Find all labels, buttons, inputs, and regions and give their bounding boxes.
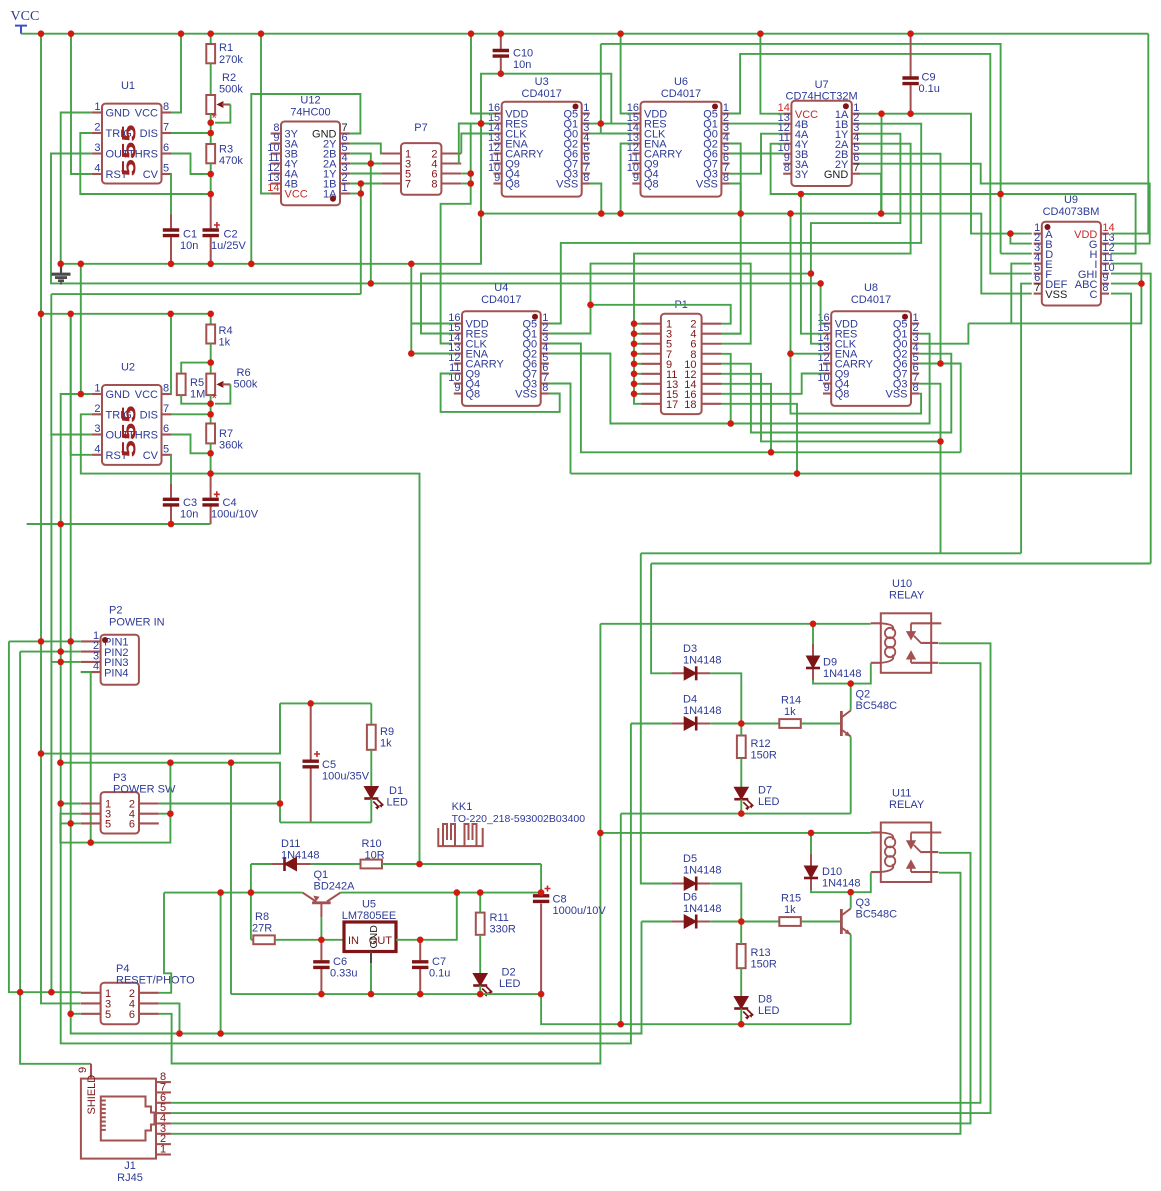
U11 NC contact stub (922, 851, 939, 853)
U9 pin 1 stub (1034, 233, 1042, 235)
junction VCC rail x261 (258, 30, 265, 37)
svg-text:8: 8 (784, 162, 790, 174)
svg-text:27R: 27R (252, 923, 272, 935)
junction row762 x231 (228, 759, 235, 766)
junction row762 x170.4 (167, 759, 174, 766)
junction P7.8 (467, 180, 474, 187)
U6 pin 8 stub (721, 182, 729, 184)
junction P1.14 row452 (768, 449, 775, 456)
wire U1.VCC to rail (172, 34, 181, 113)
wire R13 to D8 (740, 968, 742, 996)
svg-text:R10: R10 (362, 838, 382, 850)
U1 pin 4 stub (92, 173, 102, 175)
U7 pin 14 stub (783, 113, 791, 115)
junction Q1/RES (598, 120, 605, 127)
U4 pin 8 stub (541, 392, 549, 394)
U2 pin 6 stub (162, 433, 172, 435)
svg-text:1N4148: 1N4148 (822, 878, 861, 890)
wire D11 to R10 (311, 863, 361, 865)
junction rail2 x41 (38, 311, 45, 318)
resistor R15 (779, 917, 801, 926)
U1 pin 1 stub (92, 111, 102, 113)
P7 pin stub (441, 162, 461, 164)
wire U1.RST to VCC rail (71, 34, 92, 174)
wire P2.1 col to P4.1 (9, 641, 81, 992)
svg-text:PIN4: PIN4 (104, 667, 128, 679)
wire U2.RST up to rail2 (71, 314, 92, 455)
wire Q3 collector up (850, 892, 852, 908)
wire VCC rail (21, 33, 1148, 35)
junction gnd row994 x371 (368, 991, 375, 998)
svg-text:10n: 10n (180, 509, 198, 521)
ground symbol (52, 264, 71, 284)
wire relay supply row U10 (600, 623, 870, 625)
wire U10 coil- down (851, 663, 871, 683)
P7 pin stub (381, 182, 401, 184)
wire row753 riser (279, 703, 281, 752)
wire U1.DIS to R3 top (172, 132, 211, 134)
wire R3 col (210, 133, 212, 144)
junction P1 bus 11 (631, 371, 638, 378)
wire D2 bottom (479, 986, 481, 995)
junction P3.4 (167, 810, 174, 817)
wire P1.14 riser (721, 384, 771, 453)
wire P1 pin 7 to bus (634, 353, 641, 355)
transistor Q1 (303, 893, 341, 917)
junction gnd bus x60.7 (57, 261, 64, 268)
svg-text:8: 8 (163, 383, 169, 395)
U3 pin 14 stub (494, 132, 502, 134)
svg-text:C7: C7 (432, 956, 446, 968)
resistor R8 (253, 935, 274, 944)
U3 pin 2 stub (582, 122, 590, 124)
wire P3.5 row (60, 822, 80, 824)
svg-text:LED: LED (499, 978, 520, 990)
wire R11 to D2 (479, 935, 481, 974)
wire R11 top (479, 893, 481, 913)
wire D5 input riser (641, 553, 671, 883)
svg-text:5: 5 (163, 443, 169, 455)
resistor R5 (177, 374, 186, 396)
svg-text:CD4073BM: CD4073BM (1043, 206, 1100, 218)
svg-text:7: 7 (853, 162, 859, 174)
J1 pin 4 stub (156, 1122, 171, 1124)
IC P3 body (101, 792, 139, 833)
U7 pin 1 stub (852, 113, 860, 115)
U6 pin 13 stub (632, 142, 640, 144)
P1 pin stub (641, 383, 661, 385)
capacitor C8 (533, 886, 551, 995)
svg-text:4: 4 (93, 661, 99, 673)
svg-text:R7: R7 (219, 428, 233, 440)
junction gnd row x171 (168, 521, 175, 528)
svg-text:D10: D10 (822, 866, 842, 878)
svg-text:1N4148: 1N4148 (281, 850, 320, 862)
U8 pin 10 stub (823, 382, 831, 384)
svg-text:9: 9 (454, 382, 460, 394)
U4 pin 2 stub (541, 332, 549, 334)
wire U4.ENA to riser (411, 353, 454, 355)
svg-text:BC548C: BC548C (856, 909, 898, 921)
U7 pin 4 stub (852, 143, 860, 145)
U6 pin 7 stub (721, 172, 729, 174)
junction row283 2A2B riser (368, 280, 375, 287)
wire P2.2 col to J1 shield (20, 652, 91, 1064)
wire 1A join 1B (350, 193, 361, 195)
wire P3.2 row (159, 803, 280, 805)
wire R7 to C4 (210, 443, 212, 473)
P1 pin stub (702, 373, 722, 375)
wire R3 to THRS node (210, 163, 212, 194)
P1 pin stub (641, 373, 661, 375)
U9 pin 5 stub (1034, 273, 1042, 275)
U3 pin 4 stub (582, 142, 590, 144)
U12 pin1 mark (330, 196, 336, 202)
junction row892 R11 (477, 889, 484, 896)
junction VCC rail x500.8 (498, 30, 505, 37)
trimmer R6 body (206, 374, 215, 396)
U10 body (881, 613, 931, 673)
U3 pin 6 stub (582, 162, 590, 164)
junction R4 bottom (207, 359, 214, 366)
svg-text:2: 2 (94, 122, 100, 134)
U12 pin 11 stub (271, 162, 281, 164)
IC U7 body (791, 101, 851, 186)
svg-text:CD4017: CD4017 (522, 88, 562, 100)
P4 pin stub (139, 1013, 159, 1015)
U9 pin 9 stub (1101, 283, 1109, 285)
U9 pin 8 stub (1101, 293, 1109, 295)
U7 pin 7 stub (852, 173, 860, 175)
capacitor C1 (170, 215, 172, 264)
wire col x51.4 U2.OUT to P4.1 (50, 435, 52, 993)
P4 pin stub (139, 992, 159, 994)
junction D9 top (810, 621, 817, 628)
junction 2A-2B (368, 160, 375, 167)
U6 pin 9 stub (632, 182, 640, 184)
svg-text:VSS: VSS (556, 179, 578, 191)
wire U9.E loop to I (1011, 264, 1141, 324)
U6 pin 16 stub (632, 112, 640, 114)
IC U12 body (281, 122, 340, 206)
svg-text:R11: R11 (490, 912, 509, 924)
U11 contact symbol (907, 833, 921, 873)
U7 pin1 mark (843, 103, 849, 109)
junction P1 bus 5 (631, 340, 638, 347)
P1 pin stub (702, 333, 722, 335)
junction DIS node (207, 130, 214, 137)
svg-text:6: 6 (129, 818, 135, 830)
junction P2.3 gnd (57, 659, 64, 666)
svg-text:1N4148: 1N4148 (683, 655, 722, 667)
svg-text:3Y: 3Y (795, 169, 809, 181)
P3 pin stub (139, 822, 159, 824)
wire U6.CLK row (601, 133, 633, 135)
svg-text:R1: R1 (219, 42, 233, 54)
wire J1.5 to relay (171, 643, 991, 1113)
U10 coil- stub (871, 662, 881, 664)
IC U1 body (102, 104, 162, 184)
junction P7.6 (467, 170, 474, 177)
wire U1.GND down to gnd bus (61, 113, 92, 264)
P1 pin stub (641, 323, 661, 325)
svg-text:P3: P3 (113, 772, 126, 784)
wire row762 (60, 763, 280, 823)
diode D5 (671, 877, 710, 891)
U8 pin 4 stub (911, 352, 919, 354)
junction gnd bus x251.3 (248, 261, 255, 268)
junction gnd row994 x541.1 (538, 991, 545, 998)
wire DEF net row (641, 552, 1021, 554)
junction U4.ENA (408, 350, 415, 357)
svg-text:6: 6 (129, 1009, 135, 1021)
U2 pin 5 stub (162, 454, 172, 456)
svg-text:8: 8 (1102, 282, 1108, 294)
wire D10 top lead (810, 833, 812, 854)
resistor R13 (737, 944, 746, 968)
wire U9.C down-left (571, 294, 1132, 474)
wire D6 to R15 (710, 921, 779, 923)
U12 pin 14 stub (271, 192, 281, 194)
svg-text:P2: P2 (109, 605, 122, 617)
wire U3.VDD riser (471, 34, 494, 114)
junction C row P1.18 (794, 470, 801, 477)
U9 pin 3 stub (1034, 253, 1042, 255)
P4 pin stub (139, 1002, 159, 1004)
junction VSS rail x620.6 (617, 210, 624, 217)
junction C2 node (207, 191, 214, 198)
U10 NO contact stub (911, 662, 938, 664)
diode D6 (671, 915, 710, 929)
svg-text:1: 1 (160, 1143, 166, 1155)
wire P4.5 row (71, 1013, 81, 1015)
svg-text:C3: C3 (183, 497, 197, 509)
junction row762 x60.4 (57, 759, 64, 766)
junction P4.4 row1033 (176, 1030, 183, 1037)
P3 pin stub (139, 802, 159, 804)
svg-text:Q1: Q1 (314, 869, 329, 881)
svg-text:R12: R12 (751, 738, 771, 750)
U12 pin 13 stub (271, 182, 281, 184)
wire U4.Q1 to P1.6 (549, 264, 751, 344)
J1 pin 5 stub (156, 1112, 171, 1114)
junction VCC rail x760.4 (757, 30, 764, 37)
diode D10 (804, 854, 818, 890)
svg-text:KK1: KK1 (452, 801, 473, 813)
wire U5.GND down (370, 963, 372, 994)
U8 pin1 mark (902, 314, 908, 320)
wire row753 to C5 block (41, 703, 280, 753)
wire U7.1B to U4.Q5 row (549, 124, 921, 324)
wire U12.2B join 2A (350, 154, 371, 164)
svg-text:Q3: Q3 (856, 897, 871, 909)
J1 body (81, 1079, 156, 1159)
svg-text:555: 555 (120, 124, 141, 177)
svg-text:9: 9 (824, 382, 830, 394)
U3 pin 16 stub (494, 112, 502, 114)
U7 pin 12 stub (783, 133, 791, 135)
wire P1 pin 11 to bus (634, 373, 641, 375)
wire U8.RES riser (801, 194, 823, 334)
wire c8 gnd to row1024 (541, 994, 851, 1024)
wire gnd row y524 (27, 523, 211, 525)
U4 pin 7 stub (541, 382, 549, 384)
U4 pin 13 stub (454, 352, 462, 354)
wire P1 pin 9 to bus (634, 363, 641, 365)
IC U6 body (641, 102, 722, 197)
svg-text:Q8: Q8 (466, 389, 481, 401)
P1 pin stub (702, 343, 722, 345)
U8 pin 1 stub (911, 322, 919, 324)
junction P4.1 x20.1 (17, 989, 24, 996)
svg-text:U2: U2 (121, 362, 135, 374)
svg-text:VCC: VCC (285, 189, 308, 201)
wire U4.Q3 to row473 (549, 384, 571, 474)
U6 pin 10 stub (632, 172, 640, 174)
svg-text:10n: 10n (513, 59, 531, 71)
U4 pin 16 stub (454, 322, 462, 324)
U10 common stub bare (911, 622, 941, 624)
U2 pin 7 stub (162, 413, 172, 415)
junction R7 bottom (207, 450, 214, 457)
U5 GND pin lead (370, 952, 372, 964)
wire gnd row994 riser left (230, 763, 232, 994)
svg-text:8: 8 (583, 172, 589, 184)
P1 pin stub (702, 353, 722, 355)
svg-text:IN: IN (348, 935, 359, 947)
junction VCC rail x41 (38, 30, 45, 37)
wire U2.DIS to R7 (172, 413, 211, 415)
svg-text:C2: C2 (224, 229, 238, 241)
svg-text:Q8: Q8 (835, 389, 850, 401)
junction P3.2 join (277, 800, 284, 807)
wire D7 to gnd row (740, 799, 742, 813)
junction row2 D (997, 191, 1004, 198)
wire relay supply row U11 (600, 832, 870, 834)
U2 pin 4 stub (92, 454, 102, 456)
wire U3.Q1 to U6.RES (590, 123, 632, 125)
svg-text:4: 4 (94, 443, 100, 455)
junction row892 C8 (538, 889, 545, 896)
U6 pin 5 stub (721, 152, 729, 154)
wire C5 block bottom row (280, 821, 371, 823)
IC P1 body (661, 314, 702, 414)
svg-text:1k: 1k (784, 706, 796, 718)
junction U4RES-U8CLK (808, 270, 815, 277)
P2 pin 1 stub (81, 640, 101, 642)
junction P1 bus 7 (631, 350, 638, 357)
svg-text:LED: LED (758, 1005, 779, 1017)
svg-text:Q2: Q2 (856, 689, 871, 701)
svg-text:500k: 500k (234, 379, 258, 391)
svg-text:1k: 1k (219, 337, 231, 349)
U8 pin 11 stub (823, 372, 831, 374)
wire D11 left col (251, 863, 272, 865)
IC U4 body (462, 311, 541, 406)
wire U2.GND left-down (61, 394, 631, 1043)
svg-text:3: 3 (94, 423, 100, 435)
IC U9 body (1042, 222, 1101, 306)
U12 pin 1 stub (340, 192, 350, 194)
wire U8.ENA row (791, 353, 824, 355)
junction P2.4 loop (87, 839, 94, 846)
junction D7 bottom (738, 810, 745, 817)
wire J1.6 to relay (171, 663, 981, 1103)
svg-text:5: 5 (163, 163, 169, 175)
capacitor C7 (419, 940, 421, 994)
svg-text:9: 9 (494, 172, 500, 184)
wire gnd bus (61, 74, 612, 264)
svg-text:9: 9 (77, 1067, 89, 1073)
junction gnd bus x210.7 (207, 261, 214, 268)
svg-text:RJ45: RJ45 (117, 1172, 143, 1184)
U9 pin 6 stub (1034, 283, 1042, 285)
wire U11 coil- down (851, 872, 871, 892)
svg-text:R3: R3 (219, 144, 233, 156)
U3 pin 9 stub (494, 182, 502, 184)
U12 pin 7 stub (340, 132, 350, 134)
wire reset net col x600.8 (600, 44, 602, 134)
svg-text:RELAY: RELAY (889, 590, 925, 602)
J1 pin 3 stub (156, 1133, 171, 1135)
wire U1.THRS to R3 bottom (172, 154, 211, 175)
P1 pin stub (641, 343, 661, 345)
U11 NO contact stub (911, 871, 938, 873)
P4 pin stub (81, 992, 101, 994)
junction gnd row994 x480.2 (477, 991, 484, 998)
wire U12.1B to P7.7 (350, 183, 381, 185)
wire U6.ENA to gnd (621, 144, 633, 214)
wire R1 to R2 (210, 63, 212, 95)
wire R15 to Q3 base (801, 921, 842, 923)
P4 pin stub (81, 1013, 101, 1015)
heatsink KK1 (438, 824, 482, 846)
wire 1A1B net down to row294 (360, 184, 362, 295)
wire R14 to Q2 base (801, 723, 842, 725)
U7 pin 11 stub (783, 143, 791, 145)
svg-text:J1: J1 (124, 1160, 136, 1172)
resistor R1 (206, 44, 215, 63)
wire U4.Q4 under loop (441, 374, 560, 412)
wire col 250.9 (250, 864, 252, 940)
U7 pin 2 stub (852, 123, 860, 125)
diode D4 (671, 717, 710, 731)
U6 pin 14 stub (632, 132, 640, 134)
wire P1 left bus (634, 324, 641, 404)
U12 pin 10 stub (271, 152, 281, 154)
wire P2.4 down (81, 672, 91, 843)
svg-text:CD4017: CD4017 (481, 294, 521, 306)
svg-text:Q8: Q8 (644, 179, 659, 191)
svg-text:270k: 270k (219, 54, 243, 66)
svg-text:CD4017: CD4017 (661, 88, 701, 100)
P1 pin stub (641, 333, 661, 335)
wire J1.3 to relay (171, 873, 961, 1134)
svg-text:D2: D2 (502, 967, 516, 979)
wire U3.Q0 to U6.CLK (590, 133, 601, 135)
VCC symbol (15, 26, 27, 34)
wire P1.10 to row432 (721, 354, 951, 433)
U3 pin 5 stub (582, 152, 590, 154)
P2 pin 3 stub (81, 661, 101, 663)
svg-text:1: 1 (94, 383, 100, 395)
svg-text:U4: U4 (494, 282, 508, 294)
capacitor C3 (170, 484, 172, 524)
U8 pin 12 stub (823, 362, 831, 364)
wire U8.Q3 down (919, 384, 940, 554)
junction gnd bus x411.3 (408, 261, 415, 268)
wire U2.CV down to C3 (170, 455, 172, 484)
